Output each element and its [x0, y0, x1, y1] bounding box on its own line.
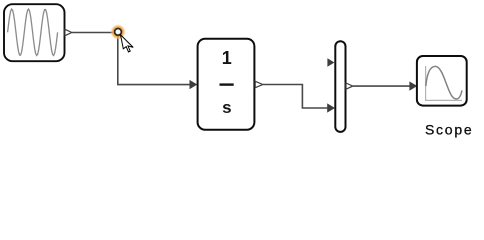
sine block output port: [65, 29, 72, 35]
node highlight glow: [110, 24, 125, 39]
wire node down to integrator: [118, 33, 190, 85]
scope curve: [426, 66, 462, 99]
svg-text:Scope: Scope: [425, 121, 473, 137]
sine wave source block: [4, 4, 65, 61]
node circle: [115, 29, 122, 36]
sine wave icon: [8, 9, 58, 55]
mouse cursor: [121, 35, 134, 52]
arrowhead into scope: [409, 81, 417, 90]
arrowhead into integrator: [190, 80, 198, 89]
wire mux to scope: [353, 85, 410, 87]
arrowhead into mux bottom input: [327, 103, 335, 112]
fraction bar: [220, 83, 234, 85]
integrator block 1/s: [198, 39, 255, 130]
scope axes: [426, 66, 462, 100]
scope block: [417, 56, 467, 106]
svg-text:s: s: [222, 98, 231, 117]
mux unconnected top input port arrow: [327, 58, 334, 67]
mux block: [335, 41, 345, 132]
wire sine to node: [72, 32, 118, 34]
svg-text:1: 1: [222, 48, 232, 68]
integrator output port: [255, 81, 263, 87]
wire integrator to mux: [263, 85, 328, 109]
mux output port: [346, 83, 353, 89]
